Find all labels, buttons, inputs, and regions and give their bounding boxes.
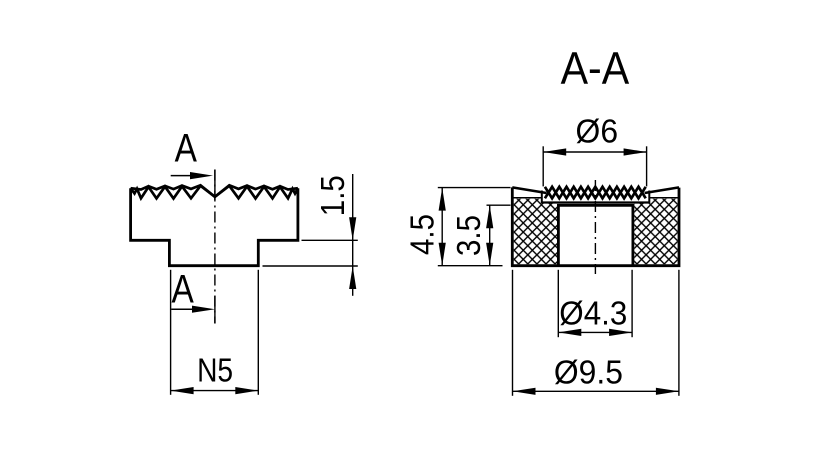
left view body outline <box>131 188 298 266</box>
hole Ø4.3 (section) <box>557 204 634 266</box>
dimension Ø4.3 (section view) <box>558 270 632 337</box>
title A-A (section view) <box>561 42 630 93</box>
svg-text:1.5: 1.5 <box>314 175 351 216</box>
dimension Ø9.5 (section view) <box>513 270 679 396</box>
hatch left wall <box>514 199 557 264</box>
knurled top teeth zigzag (left view) <box>131 186 298 199</box>
label A top <box>175 127 198 171</box>
knurl zigzag A (section) <box>545 187 646 199</box>
hatch right wall <box>634 199 677 264</box>
svg-text:Ø6: Ø6 <box>576 112 619 149</box>
top rim right wedge <box>645 187 679 197</box>
svg-text:A: A <box>171 267 194 311</box>
dimension 4.5 (section view) <box>404 188 511 266</box>
dimension Ø6 (section view) <box>543 112 646 186</box>
dimension 3.5 (section view) <box>450 205 511 266</box>
svg-text:Ø4.3: Ø4.3 <box>559 294 627 331</box>
svg-text:A-A: A-A <box>561 42 630 93</box>
knurl zigzag B (section) <box>545 187 646 199</box>
dimension N5 (left view) <box>171 270 259 395</box>
section arrow top <box>171 172 213 179</box>
svg-text:Ø9.5: Ø9.5 <box>554 354 623 391</box>
top rim left wedge <box>512 187 546 197</box>
svg-text:A: A <box>175 127 198 171</box>
section line A-A (left view centerline) <box>214 170 216 324</box>
label A bottom <box>171 267 194 311</box>
centerline (section view) <box>594 180 596 274</box>
svg-text:4.5: 4.5 <box>404 214 441 255</box>
knurl band edges (section) <box>542 191 650 204</box>
svg-text:3.5: 3.5 <box>450 215 487 256</box>
section arrow bottom <box>171 306 215 313</box>
section body outline <box>512 187 679 265</box>
dimension 1.5 (left view) <box>263 174 358 296</box>
knurled top crown line (left view) <box>131 185 298 197</box>
svg-text:N5: N5 <box>197 352 233 389</box>
